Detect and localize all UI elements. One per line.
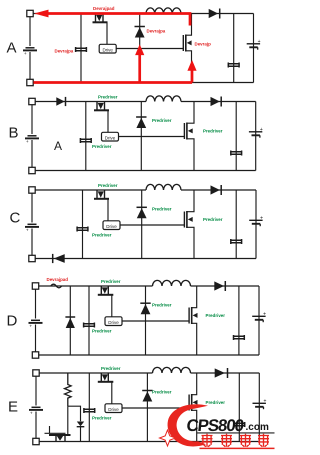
node A red arrow into source — [34, 10, 48, 18]
logo CPS800 red swoosh C — [168, 404, 208, 446]
wire B right edge — [255, 102, 257, 171]
svg-text:Drive: Drive — [108, 320, 119, 325]
wire C D1 branch — [141, 190, 143, 259]
terminal E input top — [33, 370, 39, 376]
diode D3 clamp — [65, 317, 75, 328]
wire D output cap branch — [238, 286, 240, 355]
resistor R1 bias — [65, 373, 72, 406]
capacitor Co1 E — [234, 422, 245, 427]
logo white star sparkle — [160, 430, 176, 446]
svg-text:+: + — [260, 127, 263, 133]
wire A input cap branch — [80, 14, 82, 83]
wire A red segment Q2 — [191, 70, 194, 83]
wire B output cap branch — [235, 102, 237, 171]
svg-text:Devrajpa: Devrajpa — [147, 29, 166, 34]
op-amp U-A gate drive box — [99, 44, 116, 53]
svg-text:Devrajpad: Devrajpad — [47, 277, 69, 282]
wire A D1 branch — [139, 14, 141, 83]
wire A red current path top rail — [49, 14, 191, 26]
svg-text:Predriver: Predriver — [203, 217, 223, 222]
terminal B input bottom — [29, 167, 35, 173]
svg-text:Predriver: Predriver — [98, 183, 118, 188]
terminal A input top — [27, 10, 33, 16]
terminal A input bottom — [27, 79, 33, 85]
wire A right edge — [253, 14, 255, 83]
battery VD source — [29, 320, 43, 329]
wire A left column — [29, 17, 31, 47]
wire E input cap branch — [88, 373, 90, 442]
fuse F1 in top rail — [51, 284, 62, 288]
transistor Q2 A low-side MOSFET — [183, 14, 191, 83]
svg-text:E: E — [8, 399, 18, 416]
transistor Q1 D high-side MOSFET — [98, 286, 114, 295]
wire E top rail — [39, 372, 152, 374]
capacitor Co1 A — [228, 63, 239, 68]
wire A bottom rail — [33, 82, 253, 84]
terminal B input top — [29, 98, 35, 104]
wire C top rail — [35, 189, 146, 191]
wire B drive to Q2 gate — [119, 136, 185, 138]
diode DB series input — [56, 97, 65, 106]
diode Z1 zener — [77, 422, 85, 442]
diode DC series in bottom rail — [53, 254, 65, 263]
wire A Q1 gate to drive — [106, 22, 108, 44]
svg-text:+: + — [263, 398, 266, 404]
wire B left column — [31, 105, 33, 135]
svg-text:+: + — [26, 140, 29, 145]
diode D1 B freewheel — [136, 117, 146, 128]
wire E Q1 gate to drive — [111, 382, 113, 404]
battery VB source — [25, 136, 39, 145]
capacitor Co2 C polarized — [249, 215, 263, 226]
svg-text:Devrajpa: Devrajpa — [55, 49, 74, 54]
wire A red current path bottom rail — [34, 81, 193, 84]
diode D1 E freewheel — [142, 391, 152, 402]
inductor L1 D — [153, 280, 191, 286]
wire A red segment D1 — [138, 55, 141, 83]
wire D top rail — [39, 285, 153, 287]
svg-text:Predriver: Predriver — [152, 303, 172, 308]
logo black rule under CPS800.com — [197, 432, 275, 434]
wire B top rail — [35, 101, 146, 103]
capacitor Co2 B polarized — [249, 127, 263, 138]
wire E output cap branch — [238, 373, 240, 442]
wire C bottom rail — [35, 258, 256, 260]
wire E drain line — [67, 406, 69, 435]
svg-text:Devrajpad: Devrajpad — [93, 6, 115, 11]
terminal E input bottom — [33, 438, 39, 444]
capacitor Co1 D — [234, 335, 245, 340]
wire E drive to Q2 gate — [122, 407, 189, 409]
svg-text:D: D — [7, 313, 18, 330]
transistor Q2 B low-side MOSFET — [184, 102, 194, 171]
wire A drive to Q2 gate — [116, 48, 183, 50]
op-amp U-D gate drive box — [105, 317, 122, 326]
capacitor Cin B — [80, 138, 91, 143]
wire D D1 branch — [145, 286, 147, 355]
wire D Q1 gate to drive — [111, 295, 113, 317]
terminal D input top — [32, 283, 38, 289]
wire D drive to Q2 gate — [122, 320, 189, 322]
diode D1 C freewheel — [137, 207, 147, 218]
wire B D1 branch — [140, 102, 142, 171]
terminal D input bottom — [32, 352, 38, 358]
svg-text:+: + — [29, 325, 32, 330]
diode D2 D output — [214, 281, 225, 291]
inductor L1 C — [146, 184, 181, 190]
svg-text:Drive: Drive — [102, 47, 113, 52]
capacitor Co2 A polarized — [247, 39, 261, 50]
op-amp U-E gate drive box — [105, 404, 122, 413]
capacitor Cin C — [77, 227, 88, 232]
capacitor Co2 D polarized — [252, 311, 266, 322]
transistor Q1 C high-side MOSFET — [94, 190, 109, 199]
svg-text:Predriver: Predriver — [92, 416, 112, 421]
wire E bias node to zener branch — [68, 406, 81, 421]
diode D1 D freewheel — [140, 303, 150, 314]
svg-text:.com: .com — [246, 422, 269, 433]
wire E right edge — [258, 373, 260, 442]
transistor Q2 C low-side MOSFET — [184, 190, 194, 259]
svg-text:Predriver: Predriver — [152, 118, 172, 123]
node A red arrow up through D1 — [135, 44, 144, 55]
transistor Q1 A high-side MOSFET — [93, 14, 108, 23]
capacitor Co1 B — [231, 151, 242, 156]
svg-text:Predriver: Predriver — [152, 390, 172, 395]
wire E D1 branch — [146, 373, 148, 442]
logo chinese characters dian yuan zai xian — [202, 434, 213, 447]
svg-text:Predriver: Predriver — [152, 207, 172, 212]
wire C right edge — [255, 190, 257, 259]
transistor Q2 E low-side MOSFET — [189, 373, 197, 442]
capacitor Cin E — [84, 408, 95, 413]
svg-text:B: B — [9, 125, 19, 142]
svg-text:Predriver: Predriver — [203, 128, 223, 133]
wire D clamp diode branch — [69, 286, 71, 355]
svg-text:Predriver: Predriver — [206, 313, 226, 318]
diode D2 E output — [215, 368, 228, 378]
op-amp U-C gate drive box — [103, 221, 120, 230]
wire C input cap branch — [82, 190, 84, 259]
transistor Q2 D low-side MOSFET — [189, 286, 197, 355]
capacitor Co1 C — [231, 239, 242, 244]
wire D bottom rail — [39, 354, 259, 356]
svg-text:+: + — [263, 311, 266, 317]
svg-text:+: + — [26, 229, 29, 234]
svg-text:A: A — [7, 40, 17, 57]
transistor Q3 bottom clamp MOSFET — [45, 426, 71, 442]
terminal C input bottom — [29, 255, 35, 261]
inductor L1 E — [153, 367, 191, 373]
svg-text:Predriver: Predriver — [92, 144, 112, 149]
battery VA source — [23, 48, 37, 57]
capacitor Co2 E polarized — [253, 398, 267, 409]
battery VE source — [29, 407, 43, 416]
svg-text:Drive: Drive — [108, 407, 119, 412]
diode D1 A freewheel — [135, 27, 145, 38]
wire D input cap branch — [88, 286, 90, 355]
logo red underline — [200, 447, 275, 449]
svg-text:A: A — [54, 139, 62, 153]
svg-text:+: + — [24, 52, 27, 57]
svg-text:Predriver: Predriver — [101, 279, 121, 284]
wire E bottom rail — [39, 441, 259, 443]
wire C Q1 gate to drive — [107, 199, 109, 221]
svg-text:Predriver: Predriver — [206, 400, 226, 405]
capacitor Cin D — [84, 323, 95, 328]
svg-text:+: + — [260, 215, 263, 221]
wire B bottom rail — [35, 170, 256, 172]
wire B input cap branch — [85, 102, 87, 171]
transistor Q1 E high-side MOSFET — [98, 373, 114, 382]
svg-text:Predriver: Predriver — [92, 233, 112, 238]
svg-text:Drive: Drive — [105, 135, 116, 140]
inductor L1 A — [146, 8, 181, 14]
svg-text:Drive: Drive — [106, 224, 117, 229]
wire A top rail — [33, 13, 146, 15]
svg-text:C: C — [10, 210, 21, 227]
wire A output cap branch — [233, 14, 235, 83]
capacitor Cin A — [76, 47, 87, 52]
wire C left column — [31, 193, 33, 223]
svg-text:Predriver: Predriver — [98, 95, 118, 100]
node A red arrow up through Q2 — [187, 60, 196, 71]
svg-text:Predriver: Predriver — [92, 329, 112, 334]
wire B Q1 gate to drive — [107, 110, 109, 132]
svg-text:CPS800: CPS800 — [186, 416, 245, 435]
wire D right edge — [258, 286, 260, 355]
wire D left column — [35, 289, 37, 319]
transistor Q1 B high-side MOSFET — [94, 102, 109, 111]
diode D2 B output — [211, 97, 222, 107]
svg-text:Devrajp: Devrajp — [195, 42, 212, 47]
svg-text:+: + — [30, 412, 33, 417]
battery VC source — [25, 224, 39, 233]
wire C drive to Q2 gate — [120, 224, 184, 226]
diode D2 C output — [211, 185, 222, 195]
op-amp U-B gate drive box — [102, 132, 119, 141]
inductor L1 B — [146, 96, 181, 102]
wire E left column — [35, 376, 37, 406]
diode D2 A output — [209, 9, 220, 19]
wire C output cap branch — [235, 190, 237, 259]
terminal C input top — [29, 187, 35, 193]
svg-text:+: + — [258, 39, 261, 45]
svg-text:Predriver: Predriver — [101, 366, 121, 371]
